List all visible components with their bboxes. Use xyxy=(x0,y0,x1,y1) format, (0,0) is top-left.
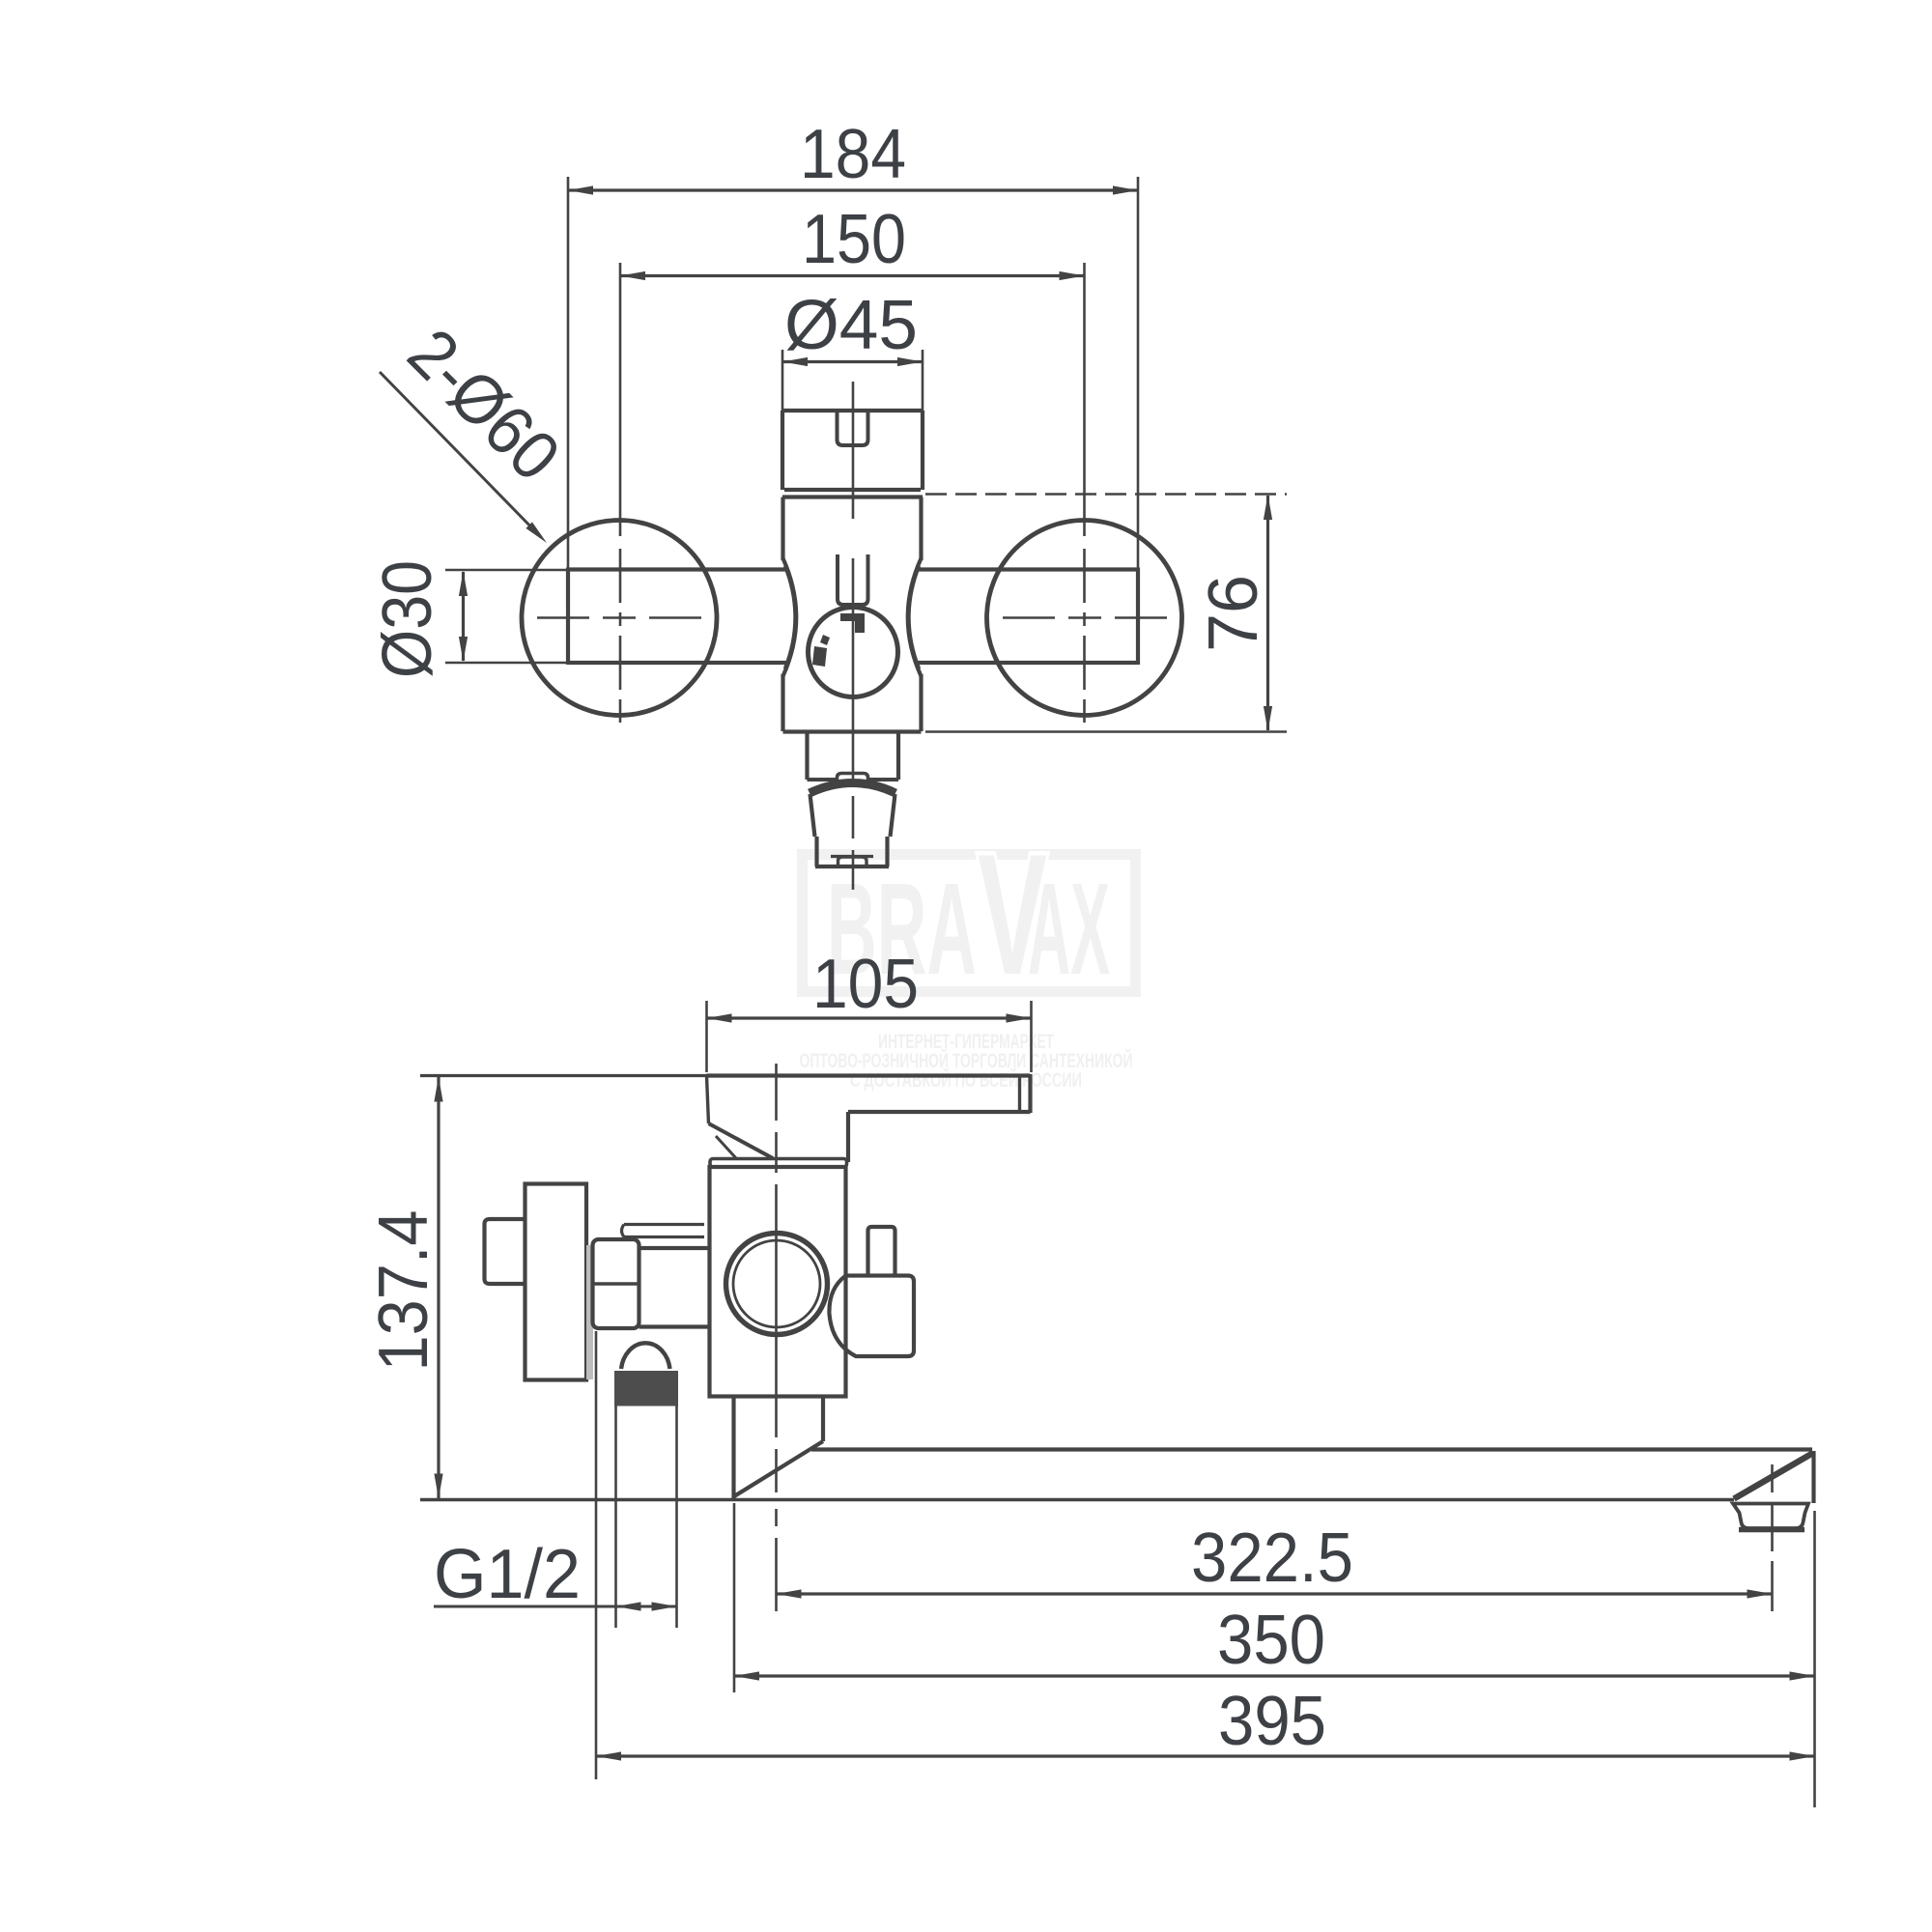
right pipe top edge xyxy=(916,567,1138,571)
diverter face inner ring xyxy=(733,1240,820,1327)
right pipe bottom edge xyxy=(916,661,1138,665)
svg-text:322.5: 322.5 xyxy=(1191,1520,1353,1597)
down pipe right edge xyxy=(821,1397,825,1442)
right pipe end face xyxy=(1136,568,1140,666)
lever neck diagonal xyxy=(709,1123,774,1158)
outlet dome sides xyxy=(810,794,815,837)
dim 184 line xyxy=(568,188,1138,191)
svg-text:76: 76 xyxy=(1195,575,1272,652)
svg-text:Ø45: Ø45 xyxy=(784,287,918,364)
outlet nipple bottom xyxy=(815,865,889,868)
outlet stem bottom edges xyxy=(808,778,839,781)
body right side upper xyxy=(919,497,923,561)
left pipe end face xyxy=(566,568,570,666)
left pipe bottom edge xyxy=(568,661,788,665)
body right concave fillet outer xyxy=(908,558,922,676)
svg-text:184: 184 xyxy=(800,116,906,193)
dim 350 line xyxy=(734,1674,1815,1677)
body lower screw notch xyxy=(838,554,868,605)
label 2-d60 leader line xyxy=(380,372,541,537)
cartridge top strip xyxy=(710,1159,847,1168)
dim 137.4 text xyxy=(365,1210,442,1372)
outlet stem right side xyxy=(896,732,900,781)
thread strip above nut xyxy=(622,1225,705,1237)
dim 184 extension line left xyxy=(567,177,570,568)
cartridge cap bottom edge xyxy=(784,488,921,492)
body right side lower xyxy=(919,674,923,731)
outlet dome arc xyxy=(810,783,895,794)
front view centerline xyxy=(852,382,855,519)
diverter icon tap xyxy=(812,635,830,667)
body left concave fillet outer xyxy=(783,558,797,676)
outlet nipple left xyxy=(814,837,818,867)
svg-text:AX: AX xyxy=(1028,856,1110,1002)
dim 395 line xyxy=(596,1754,1815,1757)
watermark BRAVAX letters xyxy=(827,818,1110,1010)
left pipe top edge xyxy=(568,567,788,571)
lever bar end cap line xyxy=(1018,1075,1021,1112)
dim 150 extension / circle centerline right xyxy=(1083,263,1086,536)
body top edge xyxy=(782,495,923,498)
dim 350/395 right extension xyxy=(1813,1511,1816,1807)
side view centerline xyxy=(775,1064,778,1121)
dim 350 left extension xyxy=(733,1503,736,1692)
knob block xyxy=(829,1276,914,1357)
aerator cup bottom thick edge xyxy=(1739,1527,1804,1533)
svg-text:350: 350 xyxy=(1217,1602,1325,1679)
spout bottom edge / baseline xyxy=(420,1498,1734,1501)
dim 150 line xyxy=(620,274,1085,277)
outlet stem left side xyxy=(805,732,809,781)
dim 150 extension / circle centerline left xyxy=(619,263,622,536)
svg-text:Ø30: Ø30 xyxy=(369,560,446,678)
aerator cup xyxy=(1733,1504,1808,1529)
lever bar top edge xyxy=(707,1073,1031,1077)
connector pipe top edge xyxy=(639,1246,710,1250)
body bottom edge xyxy=(783,729,922,733)
body left side upper xyxy=(781,497,784,561)
svg-text:С ДОСТАВКОЙ ПО ВСЕЙ РОССИИ: С ДОСТАВКОЙ ПО ВСЕЙ РОССИИ xyxy=(850,1068,1082,1092)
diverter face outer ring xyxy=(726,1234,828,1335)
svg-text:150: 150 xyxy=(802,201,906,278)
dim 137.4 top extension line xyxy=(420,1074,707,1077)
svg-text:105: 105 xyxy=(812,946,919,1023)
dim 76 bottom extension line xyxy=(925,730,1287,733)
watermark small text lines xyxy=(800,1031,1133,1092)
lever neck right edge xyxy=(846,1112,850,1162)
dim 76 line xyxy=(1266,496,1269,730)
outlet small notch xyxy=(838,774,868,785)
dim 30 text xyxy=(369,560,446,678)
wall pipe stub xyxy=(485,1219,526,1284)
diverter icon shower xyxy=(840,613,865,633)
dim 105 line xyxy=(707,1016,1032,1019)
cartridge cap top edge xyxy=(782,409,923,412)
dim 45 line xyxy=(782,360,923,363)
dim 105 extension left xyxy=(705,1001,708,1072)
svg-text:137.4: 137.4 xyxy=(365,1210,442,1372)
lever left tip edge xyxy=(707,1076,709,1124)
lever neck inner diagonal xyxy=(716,1136,736,1158)
left circle horizontal centerline xyxy=(537,616,589,619)
g12 pipe left edge / extension xyxy=(614,1406,617,1628)
dim 322.5 right extension / aerator centerline xyxy=(1771,1464,1774,1492)
watermark frame box xyxy=(803,855,1136,992)
right escutcheon circle d60 xyxy=(987,521,1182,716)
dim 322.5 line xyxy=(777,1592,1773,1595)
spout top edge xyxy=(811,1447,1812,1451)
flange side shade strip xyxy=(586,1245,593,1379)
side body box xyxy=(710,1167,846,1397)
down pipe left edge xyxy=(731,1397,735,1499)
right circle horizontal centerline xyxy=(1003,616,1055,619)
spout miter diagonal xyxy=(734,1441,823,1496)
svg-text:G1/2: G1/2 xyxy=(434,1536,581,1613)
hex nut mid line xyxy=(593,1282,639,1286)
connector pipe bottom edge xyxy=(639,1324,710,1328)
outlet nipple right xyxy=(885,837,889,867)
lower dome cap xyxy=(621,1343,670,1369)
dim 76 text xyxy=(1195,575,1272,652)
dim 137.4 line xyxy=(437,1077,440,1498)
cartridge cap right side xyxy=(921,411,924,490)
spout tip chamfer diagonal xyxy=(1734,1453,1813,1499)
lever bar right end xyxy=(1028,1074,1032,1113)
svg-text:395: 395 xyxy=(1218,1683,1326,1760)
dim 30 extension lines xyxy=(445,569,568,572)
dark thread nut xyxy=(614,1371,678,1406)
lever bar bottom edge xyxy=(848,1110,1031,1114)
dim G1/2 arrows xyxy=(616,1605,677,1608)
label G1/2 underline leader xyxy=(434,1605,615,1608)
dim 105 extension right xyxy=(1030,1001,1033,1072)
g12 pipe right edge / extension xyxy=(675,1406,678,1628)
label 2-d60 text xyxy=(393,315,574,496)
cartridge cap left side xyxy=(781,411,784,490)
left escutcheon circle d60 xyxy=(522,521,717,716)
body left concave fillet inner xyxy=(784,566,795,668)
body right concave fillet inner xyxy=(910,566,921,668)
body left side lower xyxy=(781,674,784,731)
outlet nipple tick xyxy=(831,855,873,858)
eccentric hex nut xyxy=(593,1239,639,1328)
spout tip end xyxy=(1811,1451,1815,1503)
dim 76 top extension phantom line xyxy=(925,493,1287,496)
diverter knob circle xyxy=(809,608,898,697)
wall flange plate xyxy=(526,1184,587,1380)
dim 395 left extension xyxy=(595,1331,598,1779)
dim 45 extension lines xyxy=(781,350,784,411)
dim 184 extension line right xyxy=(1137,177,1140,568)
knob stem xyxy=(868,1227,895,1276)
dim 30 arrow line xyxy=(462,572,465,661)
cap screw notch xyxy=(838,412,868,445)
